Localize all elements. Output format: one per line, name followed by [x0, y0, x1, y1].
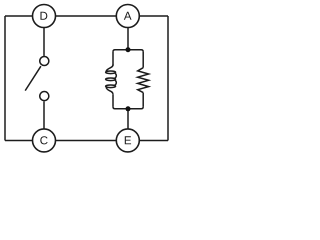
wire A to top junction: [127, 28, 129, 50]
wire bottom-left (left border to C): [5, 140, 33, 142]
wire left leg lower: [112, 94, 114, 107]
switch lever: [25, 66, 41, 90]
wire right leg lower: [142, 93, 144, 107]
wire left border: [4, 16, 6, 141]
switch bottom contact: [40, 92, 49, 101]
wire bottom-middle (C to E): [56, 140, 117, 142]
wire bottom-right (E to right border): [139, 140, 168, 142]
wire switch bottom contact to C: [43, 101, 45, 129]
node E: [116, 129, 139, 152]
wire top-right (A to right border): [139, 15, 168, 17]
wire top-middle (D to A): [56, 15, 117, 17]
wire parallel branch bottom: [113, 107, 143, 109]
wire right leg upper: [142, 52, 144, 68]
switch top contact: [40, 56, 49, 65]
junction (top): [126, 47, 131, 52]
wire right border: [167, 16, 169, 141]
junction (bottom): [126, 106, 131, 111]
wire D to switch top contact: [43, 28, 45, 56]
wire left leg upper: [112, 52, 114, 66]
wire top-left (D to left border): [5, 15, 33, 17]
inductor (coil, 3 loops): [106, 65, 117, 95]
node A: [116, 5, 139, 28]
wire bottom junction to E: [127, 109, 129, 129]
wire parallel branch top: [113, 50, 143, 52]
node C: [33, 129, 56, 152]
node D: [33, 5, 56, 28]
resistor (zigzag): [138, 68, 149, 93]
